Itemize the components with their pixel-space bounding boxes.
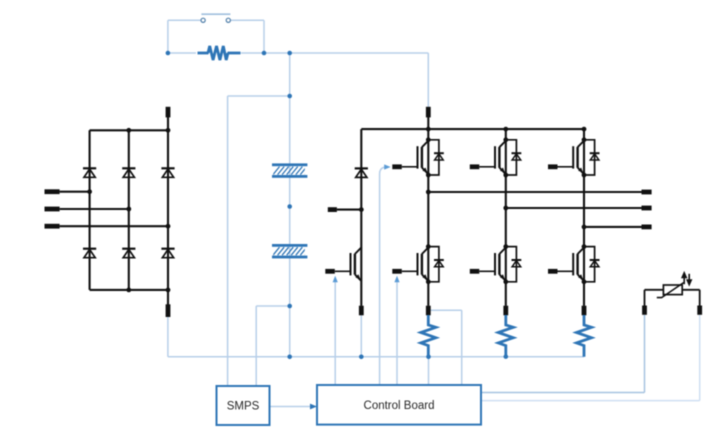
terminal: AC input phase 2: [45, 207, 60, 212]
terminal: NTC left: [642, 306, 647, 315]
junction: rect bottom / leg3: [166, 288, 171, 293]
IGBT Q4 (lower leg 1) gate lead: [402, 270, 418, 272]
wire: relay right to resistor node: [231, 19, 264, 21]
IGBT Q5 (lower leg 2) gate bar: [494, 253, 496, 275]
IGBT Q7 body bar: [354, 254, 356, 275]
arrow: into control board: [310, 404, 317, 410]
junction: chopper leg / brake terminal: [359, 207, 364, 212]
IGBT Q7 gate bar: [350, 253, 352, 275]
diode D6 (lower leg 3): [161, 248, 174, 250]
junction: rect rail / leg2: [126, 128, 131, 133]
IGBT Q3 (upper leg 3) gate terminal stub: [548, 164, 558, 169]
IGBT Q6 (lower leg 3) antiparallel diode loop: [584, 247, 595, 282]
wire: DC+ tap horizontal: [228, 95, 290, 97]
IGBT Q1 (upper leg 1) gate bar: [417, 146, 419, 168]
terminal: leg 1 emitter stub: [426, 306, 431, 316]
IGBT Q1 (upper leg 1) collector node: [426, 137, 431, 142]
terminal: chopper emitter stub: [359, 306, 364, 316]
IGBT Q7 gate lead: [335, 270, 351, 272]
IGBT Q2 (upper leg 2) collector node: [503, 137, 508, 142]
wire: resistor node to DC+ top bus: [241, 52, 428, 54]
IGBT Q3 (upper leg 3) antiparallel diode loop: [584, 140, 595, 175]
IGBT Q7 emitter lead with arrow: [355, 274, 362, 281]
wire: upper IGBT gate drive: [380, 167, 387, 385]
IGBT Q4 (lower leg 1) collector lead: [422, 247, 429, 254]
wire: SMPS to control board: [270, 406, 312, 408]
IGBT Q2 (upper leg 2) antiparallel diode loop: [506, 140, 517, 175]
junction: rect rail / leg3: [166, 128, 171, 133]
NTC "N" temperature mark: [682, 273, 691, 285]
junction: SMPS feed 2 tap: [287, 304, 292, 309]
wire: AC input phase 2: [60, 208, 129, 210]
wire: precharge left lead: [168, 52, 196, 54]
IGBT Q7 collector lead: [355, 247, 362, 254]
wire: brake terminal to chopper leg: [337, 209, 361, 211]
relay contact terminal left: [201, 18, 205, 22]
diode D4 (lower leg 1): [83, 248, 96, 250]
precharge resistor R1 leads: [198, 52, 209, 55]
wire: relay left riser: [167, 20, 169, 53]
terminal: output phase V: [642, 206, 652, 211]
wire: rectifier negative drop: [167, 317, 169, 357]
relay contact terminal right: [226, 18, 230, 22]
IGBT Q1 (upper leg 1) antiparallel diode: [434, 152, 444, 154]
junction: precharge right node: [262, 51, 267, 56]
capacitor C1 bottom plate: [272, 175, 307, 178]
junction: leg 2 phase node: [503, 206, 508, 211]
relay contact (precharge bypass) bar: [201, 13, 230, 15]
junction: DC+ tap to SMPS: [287, 94, 292, 99]
junction: chopper / DC- bus: [359, 355, 364, 360]
inverter leg 2: [505, 129, 507, 306]
brake chopper leg: [360, 129, 362, 306]
junction: rect bottom / leg2: [126, 288, 131, 293]
rectifier leg 2: [128, 130, 130, 290]
IGBT Q5 (lower leg 2) collector node: [503, 244, 508, 249]
wire: phase output U: [428, 191, 641, 193]
capacitor C2 hatch: [273, 247, 311, 255]
IGBT Q1 (upper leg 1) gate lead: [402, 166, 418, 168]
IGBT Q2 (upper leg 2) antiparallel diode: [512, 152, 522, 154]
wire: NTC right sense to control board: [699, 315, 701, 401]
terminal: leg 3 emitter stub: [582, 306, 587, 316]
IGBT Q6 (lower leg 3) collector node: [582, 244, 587, 249]
capacitor C2 bottom plate: [272, 256, 307, 259]
rectifier top rail: [90, 129, 168, 131]
inverter leg 1: [427, 129, 429, 306]
junction: capacitor midpoint: [287, 204, 292, 209]
junction: rail / leg2: [503, 127, 508, 132]
junction: shunt 1 / DC- bus: [426, 355, 431, 360]
wire: phase output V: [506, 207, 642, 209]
IGBT Q3 (upper leg 3) antiparallel diode: [590, 152, 600, 154]
IGBT Q7 gate terminal stub: [325, 269, 335, 274]
IGBT Q2 (upper leg 2) emitter lead with arrow: [499, 168, 506, 175]
wire: bus to control board sense: [428, 357, 430, 385]
junction: AC in 3: [166, 224, 171, 229]
wire: DC- bottom bus: [168, 356, 584, 358]
NTC thermistor RT1 body: [663, 285, 682, 295]
junction: rail / leg3: [582, 127, 587, 132]
IGBT Q2 (upper leg 2) emitter node: [503, 173, 508, 178]
IGBT Q5 (lower leg 2) antiparallel diode loop: [506, 247, 517, 282]
IGBT Q1 (upper leg 1) gate terminal stub: [392, 164, 402, 169]
rectifier leg 3: [167, 117, 169, 305]
diode D3 (upper leg 3): [161, 167, 174, 169]
wire: lower IGBT gate drive: [396, 281, 398, 385]
shunt resistor R4 (leg 3): [577, 315, 592, 357]
IGBT Q3 (upper leg 3) emitter lead with arrow: [578, 168, 585, 175]
IGBT Q5 (lower leg 2) gate terminal stub: [470, 269, 480, 274]
rectifier leg 1: [89, 130, 91, 290]
terminal: DC+ from precharge (top of rectifier): [166, 107, 171, 118]
junction: capacitor string / DC- bus: [287, 355, 292, 360]
wire: chopper emitter to bus: [360, 315, 362, 357]
terminal: output phase U: [642, 190, 652, 195]
IGBT Q4 (lower leg 1) emitter lead with arrow: [422, 274, 429, 281]
junction: leg 3 phase node: [582, 225, 587, 230]
IGBT Q6 (lower leg 3) gate terminal stub: [548, 269, 558, 274]
wire: DC+ drop to inverter rail: [427, 53, 429, 108]
svg-text:Control Board: Control Board: [364, 400, 435, 412]
IGBT Q1 (upper leg 1) antiparallel diode loop: [428, 140, 439, 175]
wire: capacitor string vertical: [289, 53, 291, 357]
svg-text:SMPS: SMPS: [227, 401, 260, 413]
capacitor C2 top plate: [272, 244, 307, 247]
wire: shunt sense line: [428, 309, 461, 311]
wire: chopper gate drive: [334, 281, 336, 385]
IGBT Q1 (upper leg 1) collector lead: [422, 140, 429, 147]
junction: precharge left node: [166, 51, 171, 56]
IGBT Q4 (lower leg 1) collector node: [426, 244, 431, 249]
IGBT Q1 (upper leg 1) emitter lead with arrow: [422, 168, 429, 175]
diode D1 (upper leg 1): [83, 167, 96, 169]
junction: DC+ / capacitor string: [287, 51, 292, 56]
IGBT Q3 (upper leg 3) collector lead: [578, 140, 585, 147]
wire: SMPS feed 1 riser (from DC+ tap): [227, 96, 229, 386]
terminal: rectifier negative output: [166, 304, 171, 317]
inverter leg 3: [583, 129, 585, 306]
capacitor C1 top plate: [272, 163, 307, 166]
precharge resistor R1: [208, 46, 228, 60]
inverter DC+ rail: [361, 128, 584, 130]
diode D2 (upper leg 2): [122, 167, 135, 169]
IGBT Q5 (lower leg 2) antiparallel diode: [512, 259, 522, 261]
shunt resistor R2 (leg 1): [421, 315, 436, 357]
rectifier bottom rail: [90, 289, 168, 291]
NTC thermistor RT1 leads: [645, 289, 664, 291]
IGBT Q3 (upper leg 3) body bar: [576, 147, 578, 168]
capacitor C1 hatch: [273, 167, 311, 175]
IGBT Q2 (upper leg 2) body bar: [498, 147, 500, 168]
wire: AC input phase 1: [60, 191, 90, 193]
IGBT Q1 (upper leg 1) emitter node: [426, 173, 431, 178]
wire: AC input phase 3: [60, 225, 168, 227]
IGBT Q2 (upper leg 2) gate terminal stub: [470, 164, 480, 169]
diode D5 (lower leg 2): [122, 248, 135, 250]
IGBT Q6 (lower leg 3) emitter lead with arrow: [578, 274, 585, 281]
terminal: AC input phase 1: [45, 189, 60, 194]
IGBT Q2 (upper leg 2) gate lead: [479, 166, 495, 168]
junction: AC in 1: [87, 189, 92, 194]
IGBT Q2 (upper leg 2) gate bar: [494, 146, 496, 168]
junction: rail / leg1: [426, 127, 431, 132]
IGBT Q3 (upper leg 3) emitter node: [582, 173, 587, 178]
IGBT Q3 (upper leg 3) gate lead: [558, 166, 574, 168]
NTC diagonal strike: [657, 283, 684, 298]
arrow: chopper gate: [333, 276, 338, 282]
junction: AC in 2: [126, 207, 131, 212]
terminal: AC input phase 3: [45, 224, 60, 229]
IGBT Q6 (lower leg 3) collector lead: [578, 247, 585, 254]
IGBT Q4 (lower leg 1) gate bar: [417, 253, 419, 275]
IGBT Q4 (lower leg 1) body bar: [421, 254, 423, 275]
terminal: leg 2 emitter stub: [503, 306, 508, 316]
IGBT Q6 (lower leg 3) antiparallel diode: [590, 259, 600, 261]
IGBT Q6 (lower leg 3) emitter node: [582, 279, 587, 284]
shunt resistor R3 (leg 2): [498, 315, 513, 357]
IGBT Q6 (lower leg 3) gate lead: [558, 270, 574, 272]
arrow: lower IGBT gate: [394, 276, 399, 282]
IGBT Q5 (lower leg 2) gate lead: [479, 270, 495, 272]
IGBT Q3 (upper leg 3) gate bar: [572, 146, 574, 168]
IGBT Q1 (upper leg 1) body bar: [421, 147, 423, 168]
IGBT Q5 (lower leg 2) emitter lead with arrow: [499, 274, 506, 281]
IGBT Q4 (lower leg 1) antiparallel diode loop: [428, 247, 439, 282]
junction: shunt 2 / DC- bus: [504, 354, 509, 359]
wire: NTC left sense to control board: [644, 315, 646, 393]
IGBT Q4 (lower leg 1) antiparallel diode: [434, 259, 444, 261]
terminal: NTC right: [697, 306, 702, 315]
terminal: output phase W: [642, 224, 652, 229]
chopper freewheel diode D7: [355, 167, 368, 169]
SMPS block: [217, 386, 270, 425]
IGBT Q2 (upper leg 2) collector lead: [499, 140, 506, 147]
terminal: inverter DC+ feed stub: [426, 107, 431, 118]
terminal: brake resistor: [328, 207, 337, 212]
IGBT Q6 (lower leg 3) gate bar: [572, 253, 574, 275]
IGBT Q5 (lower leg 2) emitter node: [503, 279, 508, 284]
Control Board block: [317, 385, 481, 425]
IGBT Q5 (lower leg 2) collector lead: [499, 247, 506, 254]
IGBT Q4 (lower leg 1) emitter node: [426, 279, 431, 284]
junction: leg 1 phase node: [426, 190, 431, 195]
IGBT Q4 (lower leg 1) gate terminal stub: [392, 269, 402, 274]
arrow: upper IGBT gate: [384, 164, 390, 169]
IGBT Q6 (lower leg 3) body bar: [576, 254, 578, 275]
IGBT Q3 (upper leg 3) collector node: [582, 137, 587, 142]
wire: SMPS feed 2 tap: [256, 305, 290, 307]
wire: phase output W: [584, 226, 642, 228]
IGBT Q5 (lower leg 2) body bar: [498, 254, 500, 275]
